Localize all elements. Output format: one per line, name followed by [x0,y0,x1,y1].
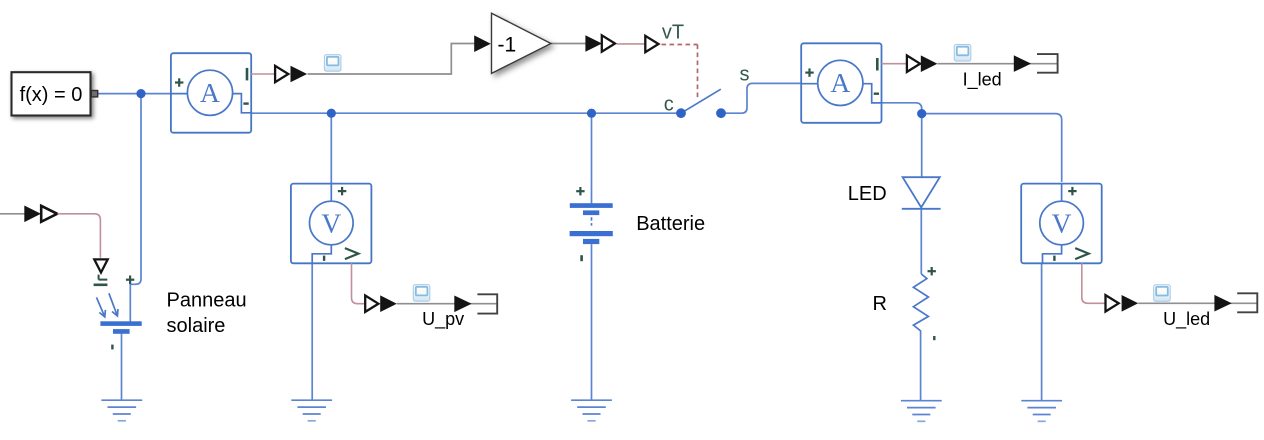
svg-text:Batterie: Batterie [636,213,705,235]
svg-text:I_led: I_led [963,70,1002,91]
svg-text:LED: LED [848,183,887,205]
svg-text:R: R [873,293,887,315]
svg-text:f(x) = 0: f(x) = 0 [20,84,83,106]
svg-text:vT: vT [662,22,684,44]
svg-text:-1: -1 [498,34,517,57]
svg-text:U_pv: U_pv [422,309,464,330]
svg-text:U_led: U_led [1163,309,1210,330]
svg-text:Panneau: Panneau [167,289,247,311]
svg-text:s: s [740,63,750,85]
svg-text:solaire: solaire [167,315,226,337]
svg-text:c: c [664,93,674,115]
